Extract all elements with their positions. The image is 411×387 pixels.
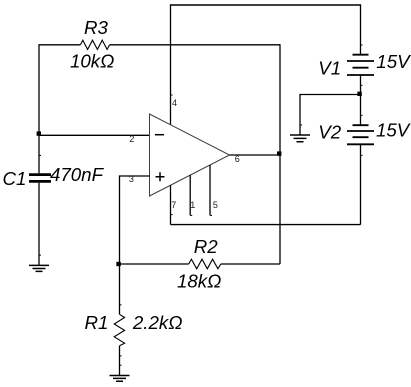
wire V1 top segment	[360, 4, 362, 54]
battery V2 pin nub bottom	[361, 154, 363, 156]
wire inverting input pin2	[39, 134, 150, 136]
wire R1 bottom to ground	[119, 346, 121, 376]
svg-text:15V: 15V	[376, 120, 411, 141]
wire V1 to V2	[360, 75, 362, 125]
wire R2 right segment	[221, 263, 280, 265]
pin 1 end nub	[190, 214, 192, 216]
battery V1 pin nub top	[361, 44, 363, 46]
svg-text:7: 7	[171, 200, 176, 210]
svg-text:R2: R2	[194, 236, 218, 257]
wire R3 right segment to feedback vertical	[110, 44, 280, 46]
resistor R1 zigzag	[114, 314, 124, 346]
battery V2 plates	[347, 125, 374, 144]
svg-text:V2: V2	[318, 122, 341, 143]
svg-text:V1: V1	[318, 58, 341, 79]
wire left rail vertical (R3 to C1)	[38, 44, 40, 173]
op-amp minus sign	[155, 134, 164, 136]
svg-text:18kΩ: 18kΩ	[177, 270, 221, 291]
wire top rail from pin4 to V1	[171, 4, 361, 6]
svg-text:4: 4	[172, 98, 177, 108]
svg-text:470nF: 470nF	[50, 164, 105, 185]
battery V1 plates	[347, 55, 374, 75]
svg-text:6: 6	[235, 154, 240, 164]
ground at V1/V2 midpoint	[290, 135, 310, 142]
wire pin3 vertical down to R2 rail	[119, 175, 121, 264]
resistor R1 pin nub top	[120, 304, 122, 306]
wire V2 bottom to rail	[360, 144, 362, 224]
pin 7 end nub	[171, 214, 173, 216]
ground under C1	[29, 265, 49, 271]
wire feedback vertical (output to R3 and R2)	[279, 44, 281, 264]
pin 5 end nub	[210, 214, 212, 216]
ground pin nub (R1 ground)	[120, 364, 122, 366]
ground pin nub (C1 ground)	[39, 254, 41, 256]
junction node D (V1/V2 midpoint)	[357, 92, 361, 96]
ground under R1	[110, 376, 130, 382]
wire C1 bottom to ground	[38, 183, 40, 266]
capacitor C1 plates	[29, 175, 51, 182]
wire midpoint ground vertical	[299, 94, 301, 135]
pin 1 stub	[189, 175, 191, 215]
svg-text:2.2kΩ: 2.2kΩ	[132, 312, 183, 333]
wire midpoint to ground horizontal	[300, 94, 361, 96]
wire R3 left segment	[39, 44, 80, 46]
svg-text:15V: 15V	[376, 51, 411, 72]
op-amp U1 triangle	[150, 114, 230, 196]
svg-text:10kΩ: 10kΩ	[70, 51, 114, 72]
junction node B (output)	[277, 151, 281, 155]
resistor R3 zigzag	[80, 40, 109, 49]
resistor R1 pin nub bottom	[120, 355, 122, 357]
junction node C (R2 / R1 / pin3)	[116, 262, 120, 266]
svg-text:R3: R3	[84, 17, 108, 38]
wire R1 top segment	[119, 264, 121, 314]
svg-text:5: 5	[213, 200, 218, 210]
svg-text:2: 2	[129, 134, 134, 144]
wire pin4 vertical	[170, 4, 172, 124]
wire R2 left segment from junction	[120, 263, 189, 265]
wire noninverting input pin3	[120, 175, 150, 177]
capacitor C1 pin nub	[39, 154, 41, 156]
resistor R2 zigzag	[189, 259, 221, 269]
wire op-amp output pin6	[230, 154, 281, 156]
op-amp plus sign	[156, 172, 165, 181]
battery V2 pin nub top	[361, 114, 363, 116]
pin 5 stub	[209, 165, 211, 215]
pin 4 end nub	[171, 94, 173, 96]
svg-text:R1: R1	[85, 312, 109, 333]
battery V1 pin nub bottom	[361, 84, 363, 86]
wire bottom rail (pin7 to V2 bottom)	[171, 224, 361, 226]
ground pin nub (mid ground)	[300, 124, 302, 126]
svg-text:C1: C1	[3, 168, 27, 189]
pin 7 stub	[170, 185, 172, 225]
junction node A (C1 / pin2)	[37, 131, 41, 135]
svg-text:1: 1	[190, 200, 195, 210]
